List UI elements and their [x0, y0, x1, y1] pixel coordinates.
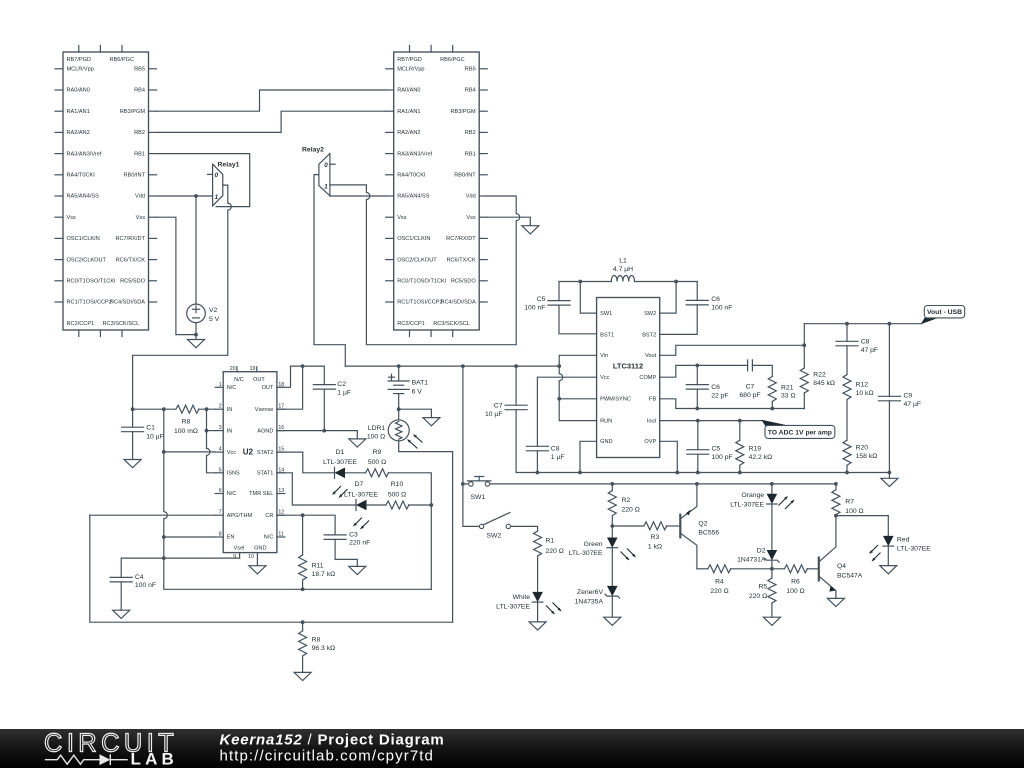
svg-text:680 pF: 680 pF: [739, 392, 760, 399]
svg-text:IN: IN: [227, 407, 233, 413]
svg-text:12: 12: [278, 510, 284, 516]
svg-text:R8: R8: [312, 636, 321, 643]
svg-text:U2: U2: [243, 448, 254, 457]
svg-text:TO ADC 1V per amp: TO ADC 1V per amp: [768, 430, 832, 437]
svg-text:13: 13: [278, 488, 284, 494]
svg-text:C1: C1: [146, 425, 155, 432]
svg-text:20: 20: [230, 366, 236, 372]
svg-text:100 nF: 100 nF: [135, 582, 156, 589]
svg-text:D2: D2: [757, 547, 766, 554]
svg-text:10 µF: 10 µF: [146, 433, 164, 440]
svg-text:RB0/INT: RB0/INT: [124, 173, 146, 179]
svg-text:Vin: Vin: [600, 353, 608, 359]
svg-text:LTL-307EE: LTL-307EE: [569, 550, 603, 557]
svg-text:500 Ω: 500 Ω: [368, 459, 386, 466]
svg-text:LAB: LAB: [131, 750, 179, 768]
svg-text:0: 0: [324, 162, 328, 169]
svg-text:V2: V2: [209, 307, 218, 314]
svg-text:R21: R21: [781, 384, 794, 391]
svg-text:R4: R4: [715, 579, 724, 586]
svg-text:R11: R11: [312, 562, 324, 569]
svg-text:LTL-307EE: LTL-307EE: [323, 459, 357, 466]
svg-text:RA2/AN2: RA2/AN2: [67, 130, 90, 136]
svg-text:RB1: RB1: [134, 151, 145, 157]
svg-text:C7: C7: [494, 403, 503, 410]
svg-text:RB6/PGC: RB6/PGC: [109, 57, 134, 63]
svg-text:2: 2: [219, 404, 222, 410]
svg-text:10 kΩ: 10 kΩ: [856, 390, 874, 397]
svg-text:N/C: N/C: [234, 377, 244, 383]
svg-text:MCLR/Vpp: MCLR/Vpp: [397, 67, 424, 73]
svg-text:500 Ω: 500 Ω: [388, 491, 406, 498]
svg-text:47 pF: 47 pF: [861, 347, 878, 354]
svg-text:GND: GND: [600, 439, 612, 445]
svg-text:Green: Green: [584, 541, 603, 548]
svg-text:220 Ω: 220 Ω: [710, 588, 728, 595]
svg-text:OVP: OVP: [644, 439, 656, 445]
svg-text:R3: R3: [651, 534, 660, 541]
svg-text:1: 1: [219, 382, 222, 388]
svg-text:RA2/AN2: RA2/AN2: [397, 130, 420, 136]
svg-text:RB2: RB2: [134, 130, 145, 136]
svg-text:1: 1: [324, 183, 328, 190]
svg-text:100 Ω: 100 Ω: [786, 588, 804, 595]
svg-text:42.2 kΩ: 42.2 kΩ: [749, 454, 773, 461]
svg-text:SW1: SW1: [471, 494, 486, 501]
svg-text:LTL-307EE: LTL-307EE: [496, 603, 530, 610]
svg-text:RC4/SDI/SDA: RC4/SDI/SDA: [110, 300, 145, 306]
svg-text:PWM/SYNC: PWM/SYNC: [600, 397, 631, 403]
svg-text:Relay2: Relay2: [302, 147, 324, 154]
svg-text:Vcc: Vcc: [600, 375, 610, 381]
svg-text:RA0/AN0: RA0/AN0: [397, 88, 420, 94]
svg-text:17: 17: [278, 404, 284, 410]
svg-text:Relay1: Relay1: [218, 161, 240, 168]
svg-text:CR: CR: [265, 513, 273, 519]
svg-text:White: White: [513, 594, 531, 601]
svg-text:Vcc: Vcc: [227, 450, 237, 456]
svg-text:C8: C8: [551, 445, 560, 452]
svg-text:RB1: RB1: [465, 151, 476, 157]
svg-text:Zener6V: Zener6V: [577, 589, 604, 596]
svg-text:RC5/SDO: RC5/SDO: [120, 279, 146, 285]
svg-text:RC7/RX/DT: RC7/RX/DT: [115, 236, 145, 242]
svg-text:220 Ω: 220 Ω: [622, 506, 640, 513]
svg-text:11: 11: [278, 532, 283, 538]
svg-text:RB7/PGD: RB7/PGD: [67, 57, 92, 63]
svg-text:Red: Red: [897, 537, 910, 544]
svg-text:RA4/T0CKI: RA4/T0CKI: [397, 173, 426, 179]
svg-text:18: 18: [278, 382, 284, 388]
svg-text:R1: R1: [546, 538, 555, 545]
svg-text:158 kΩ: 158 kΩ: [856, 453, 878, 460]
svg-text:C9: C9: [904, 393, 913, 400]
svg-text:C3: C3: [349, 531, 358, 538]
svg-text:C6: C6: [711, 296, 720, 303]
svg-text:BC547A: BC547A: [837, 572, 863, 579]
svg-text:RC0/T1OSO/T1CKI: RC0/T1OSO/T1CKI: [67, 279, 117, 285]
svg-text:100 Ω: 100 Ω: [367, 433, 385, 440]
svg-text:RB0/INT: RB0/INT: [454, 173, 476, 179]
svg-text:5: 5: [219, 467, 222, 473]
svg-text:220 nF: 220 nF: [349, 540, 370, 547]
svg-text:9: 9: [233, 554, 236, 560]
svg-text:L1: L1: [619, 257, 627, 264]
svg-text:RA0/AN0: RA0/AN0: [67, 88, 90, 94]
svg-text:10: 10: [248, 554, 254, 560]
svg-text:1N4735A: 1N4735A: [575, 598, 604, 605]
svg-text:RB4: RB4: [465, 88, 476, 94]
svg-text:RC3/SCK/SCL: RC3/SCK/SCL: [103, 321, 140, 327]
svg-text:STAT1: STAT1: [257, 471, 274, 477]
svg-text:FB: FB: [649, 397, 656, 403]
svg-text:ISNS: ISNS: [227, 471, 240, 477]
svg-text:RC5/SDO: RC5/SDO: [451, 279, 477, 285]
svg-text:Vsense: Vsense: [255, 407, 274, 413]
svg-text:OSC2/CLKOUT: OSC2/CLKOUT: [397, 257, 437, 263]
svg-text:96.3 kΩ: 96.3 kΩ: [312, 645, 336, 652]
svg-text:OSC2/CLKOUT: OSC2/CLKOUT: [67, 257, 107, 263]
svg-text:C8: C8: [861, 339, 870, 346]
svg-text:33 Ω: 33 Ω: [781, 393, 796, 400]
svg-text:6 V: 6 V: [412, 388, 423, 395]
svg-text:OSC1/CLKIN: OSC1/CLKIN: [397, 236, 430, 242]
svg-text:R19: R19: [749, 445, 762, 452]
svg-text:C5: C5: [712, 445, 721, 452]
svg-text:3: 3: [219, 425, 222, 431]
svg-text:100 mΩ: 100 mΩ: [174, 428, 198, 435]
svg-text:Vss: Vss: [466, 215, 476, 221]
svg-text:COMP: COMP: [639, 375, 656, 381]
svg-text:14: 14: [278, 467, 284, 473]
svg-text:Q4: Q4: [837, 563, 846, 570]
svg-text:RA5/AN4/SS: RA5/AN4/SS: [67, 194, 100, 200]
svg-text:LDR1: LDR1: [368, 425, 386, 432]
svg-text:OSC1/CLKIN: OSC1/CLKIN: [67, 236, 100, 242]
svg-text:MCLR/Vpp: MCLR/Vpp: [67, 67, 94, 73]
svg-text:C7: C7: [746, 384, 755, 391]
svg-text:Orange: Orange: [741, 492, 764, 499]
svg-text:BAT1: BAT1: [412, 380, 429, 387]
svg-text:Q2: Q2: [698, 520, 707, 527]
svg-text:5 V: 5 V: [209, 316, 220, 323]
svg-text:R22: R22: [813, 371, 826, 378]
svg-text:RC6/TX/CK: RC6/TX/CK: [446, 257, 475, 263]
svg-text:R2: R2: [622, 497, 631, 504]
svg-text:47 µF: 47 µF: [904, 401, 922, 408]
svg-text:8: 8: [219, 532, 222, 538]
svg-text:GND: GND: [254, 546, 266, 552]
svg-text:4: 4: [219, 447, 222, 453]
svg-text:RB6/PGC: RB6/PGC: [440, 57, 465, 63]
svg-text:Vss: Vss: [136, 215, 146, 221]
svg-text:R9: R9: [373, 449, 382, 456]
svg-text:100 Ω: 100 Ω: [845, 508, 863, 515]
svg-text:RB3/PGM: RB3/PGM: [120, 109, 146, 115]
svg-text:18.7 kΩ: 18.7 kΩ: [312, 571, 336, 578]
svg-text:Vss: Vss: [397, 215, 407, 221]
svg-text:R10: R10: [391, 481, 404, 488]
svg-text:19: 19: [250, 366, 256, 372]
svg-text:7: 7: [219, 510, 222, 516]
svg-text:220 Ω: 220 Ω: [749, 593, 767, 600]
svg-text:RC2/CCP1: RC2/CCP1: [67, 321, 95, 327]
svg-text:RC3/SCK/SCL: RC3/SCK/SCL: [433, 321, 470, 327]
svg-text:RB4: RB4: [134, 88, 145, 94]
svg-text:Keerna152 / Project Diagram: Keerna152 / Project Diagram: [220, 732, 445, 749]
svg-text:22 pF: 22 pF: [711, 392, 728, 399]
svg-text:RA5/AN4/SS: RA5/AN4/SS: [397, 194, 430, 200]
svg-text:100 nF: 100 nF: [711, 304, 732, 311]
svg-text:R6: R6: [791, 579, 800, 586]
svg-text:C4: C4: [135, 574, 144, 581]
svg-text:N/C: N/C: [227, 491, 237, 497]
svg-text:EN: EN: [227, 535, 235, 541]
svg-text:R8: R8: [182, 419, 191, 426]
svg-text:OUT: OUT: [253, 377, 265, 383]
svg-text:LTL-307EE: LTL-307EE: [344, 491, 378, 498]
svg-text:RB2: RB2: [465, 130, 476, 136]
svg-text:D7: D7: [355, 481, 364, 488]
svg-text:RB7/PGD: RB7/PGD: [397, 57, 422, 63]
svg-text:R20: R20: [856, 445, 869, 452]
svg-text:16: 16: [278, 425, 284, 431]
svg-text:LTL-307EE: LTL-307EE: [730, 501, 764, 508]
svg-text:RA4/T0CKI: RA4/T0CKI: [67, 173, 96, 179]
svg-text:15: 15: [278, 447, 284, 453]
svg-text:1 µF: 1 µF: [337, 390, 351, 397]
svg-text:Vdd: Vdd: [135, 194, 145, 200]
svg-text:C6: C6: [711, 384, 720, 391]
svg-text:RC6/TX/CK: RC6/TX/CK: [116, 257, 145, 263]
svg-text:BST1: BST1: [600, 333, 614, 339]
svg-text:1N4731A: 1N4731A: [737, 557, 766, 564]
svg-text:D1: D1: [336, 449, 345, 456]
svg-text:N/C: N/C: [264, 535, 274, 541]
svg-text:LTC3112: LTC3112: [613, 361, 643, 370]
svg-text:Vout: Vout: [645, 353, 657, 359]
svg-text:Vsel: Vsel: [234, 546, 245, 552]
svg-text:4.7 µH: 4.7 µH: [613, 266, 633, 273]
svg-text:0: 0: [215, 172, 219, 179]
svg-text:APG/THM: APG/THM: [227, 513, 253, 519]
svg-text:RB5: RB5: [465, 67, 476, 73]
svg-text:RB3/PGM: RB3/PGM: [451, 109, 477, 115]
svg-text:N/C: N/C: [227, 385, 237, 391]
svg-text:SW2: SW2: [644, 311, 656, 317]
svg-text:SW1: SW1: [600, 311, 612, 317]
svg-text:Vdd: Vdd: [466, 194, 476, 200]
svg-text:RUN: RUN: [600, 418, 612, 424]
svg-text:RA3/AN3/Vref: RA3/AN3/Vref: [67, 151, 102, 157]
svg-text:100 pF: 100 pF: [712, 454, 733, 461]
svg-text:RB5: RB5: [134, 67, 145, 73]
svg-text:R5: R5: [758, 584, 767, 591]
svg-text:C2: C2: [337, 381, 346, 388]
svg-text:RC7/RX/DT: RC7/RX/DT: [446, 236, 476, 242]
svg-text:Vss: Vss: [67, 215, 77, 221]
svg-text:RC1/T1OSI/CCP2: RC1/T1OSI/CCP2: [397, 300, 442, 306]
svg-text:R7: R7: [845, 499, 854, 506]
svg-text:LTL-307EE: LTL-307EE: [897, 546, 931, 553]
svg-text:845 kΩ: 845 kΩ: [813, 380, 835, 387]
svg-text:Iout: Iout: [647, 418, 657, 424]
svg-text:10 µF: 10 µF: [485, 411, 503, 418]
svg-text:BC556: BC556: [698, 530, 719, 537]
svg-text:RC4/SDI/SDA: RC4/SDI/SDA: [441, 300, 476, 306]
svg-text:RC0/T1OSO/T1CKI: RC0/T1OSO/T1CKI: [397, 279, 447, 285]
svg-text:220 Ω: 220 Ω: [546, 548, 564, 555]
svg-text:SW2: SW2: [487, 533, 502, 540]
svg-text:TMR SEL: TMR SEL: [249, 491, 273, 497]
svg-text:AGND: AGND: [257, 428, 273, 434]
svg-text:RA3/AN3/Vref: RA3/AN3/Vref: [397, 151, 432, 157]
svg-text:1: 1: [215, 194, 219, 201]
svg-text:RA1/AN1: RA1/AN1: [397, 109, 420, 115]
svg-text:C5: C5: [537, 296, 546, 303]
svg-text:STAT2: STAT2: [257, 450, 274, 456]
svg-text:R12: R12: [856, 382, 869, 389]
svg-text:1 µF: 1 µF: [551, 454, 565, 461]
svg-text:OUT: OUT: [262, 385, 274, 391]
svg-text:BST2: BST2: [642, 333, 656, 339]
svg-text:RC2/CCP1: RC2/CCP1: [397, 321, 425, 327]
svg-text:Vout - USB: Vout - USB: [927, 309, 962, 316]
svg-text:RA1/AN1: RA1/AN1: [67, 109, 90, 115]
svg-text:1 kΩ: 1 kΩ: [648, 543, 662, 550]
svg-text:http://circuitlab.com/cpyr7td: http://circuitlab.com/cpyr7td: [220, 747, 434, 764]
svg-text:100 nF: 100 nF: [524, 305, 545, 312]
svg-text:IN: IN: [227, 428, 233, 434]
svg-text:6: 6: [219, 488, 222, 494]
svg-text:RC1/T1OSI/CCP2: RC1/T1OSI/CCP2: [67, 300, 112, 306]
